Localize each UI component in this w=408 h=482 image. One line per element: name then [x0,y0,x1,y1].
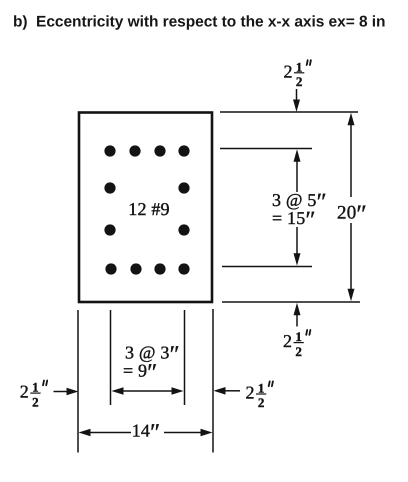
svg-text:20″: 20″ [337,201,367,228]
svg-text:14″: 14″ [132,420,161,446]
svg-text:12 #9: 12 #9 [128,199,170,219]
svg-text:b) Eccentricity with respect: b) Eccentricity with respect to the x-x … [13,14,385,31]
svg-text:= 15″: = 15″ [272,207,316,233]
svg-text:= 9″: = 9″ [123,360,157,386]
